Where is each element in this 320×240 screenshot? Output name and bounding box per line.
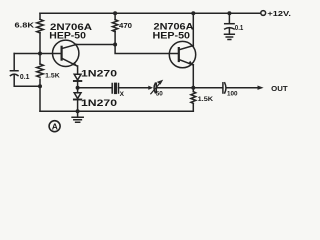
circled letter A bbox=[49, 121, 60, 132]
varcap C2 diagonal arrowhead bbox=[157, 80, 163, 85]
node X junction dot bbox=[76, 86, 80, 90]
wire crystal to varcap bbox=[119, 87, 150, 89]
wire left column mid (base node to 1.5K) bbox=[39, 54, 41, 87]
capacitor C3 0.1 bottom curved plate bbox=[225, 28, 234, 29]
ground symbol main bbox=[72, 111, 83, 122]
transistor Q2 emitter stroke bbox=[179, 59, 194, 65]
crystal Y1 right plate bbox=[118, 84, 120, 94]
wire C4 to OUT with arrowhead bbox=[227, 87, 259, 89]
wire bottom rail bbox=[40, 110, 193, 112]
svg-text:HEP-50: HEP-50 bbox=[49, 31, 86, 42]
node E2 junction dot bbox=[191, 86, 195, 90]
svg-text:0.1: 0.1 bbox=[20, 74, 30, 81]
node rail/R3 junction dot bbox=[113, 11, 117, 15]
wire base row Q1 bbox=[14, 53, 61, 55]
wire node X to D2 bbox=[77, 88, 79, 93]
capacitor C3 0.1 top plate bbox=[225, 23, 234, 25]
transistor Q1 emitter stroke bbox=[62, 58, 78, 66]
wire Q2 collector to rail bbox=[192, 12, 194, 46]
capacitor C4 100 right curved plate bbox=[225, 83, 226, 93]
svg-text:X: X bbox=[120, 91, 125, 98]
transistor Q2 collector stroke bbox=[179, 46, 194, 50]
varcap arrowhead on wire bbox=[148, 86, 153, 90]
svg-text:OUT: OUT bbox=[271, 86, 288, 93]
resistor R1 6.8K zigzag bbox=[37, 19, 44, 33]
resistor R3 470 zigzag bbox=[112, 20, 117, 32]
varcap C2 diagonal arrow bbox=[151, 83, 161, 94]
diode D2 1N270 triangle bbox=[74, 93, 81, 99]
svg-text:6.8K: 6.8K bbox=[15, 23, 35, 30]
wire 470 column bbox=[114, 13, 116, 44]
svg-text:50: 50 bbox=[156, 91, 163, 98]
svg-text:+12V.: +12V. bbox=[267, 9, 291, 18]
svg-text:470: 470 bbox=[119, 23, 132, 30]
wire top rail +12V bbox=[40, 12, 261, 14]
wire D1 to node X bbox=[77, 82, 79, 88]
transistor Q1 emitter arrowhead bbox=[72, 62, 77, 67]
wire node C down and base row Q2 bbox=[115, 45, 179, 54]
wire C3 to ground bbox=[228, 29, 230, 34]
diode D1 1N270 triangle bbox=[74, 74, 81, 80]
diode D2 cathode bar bbox=[74, 99, 81, 101]
wire node X to crystal bbox=[78, 87, 112, 89]
resistor R2 1.5K zigzag bbox=[37, 64, 44, 77]
transistor Q1 circle bbox=[52, 40, 78, 66]
transistor Q1 collector stroke bbox=[62, 44, 77, 48]
wire left column bottom corner to bottom rail bbox=[39, 86, 41, 111]
svg-text:1.5K: 1.5K bbox=[198, 96, 214, 103]
transistor Q2 emitter arrowhead bbox=[188, 61, 193, 66]
node bottom of R2 (junction dot) bbox=[38, 84, 42, 88]
varcap C2 straight plate bbox=[155, 83, 157, 93]
svg-text:1.5K: 1.5K bbox=[45, 72, 60, 79]
svg-text:1N270: 1N270 bbox=[81, 69, 117, 80]
wire rail to capacitor C3 bbox=[228, 13, 230, 23]
node rail/Q2 collector junction dot bbox=[191, 11, 195, 15]
svg-text:100: 100 bbox=[227, 91, 238, 98]
node C junction dot bbox=[113, 43, 117, 47]
svg-text:HEP-50: HEP-50 bbox=[153, 31, 191, 42]
transistor Q2 circle bbox=[169, 41, 195, 67]
transistor Q1 base bar bbox=[60, 47, 62, 60]
wire node E2 to 1.5K bbox=[192, 88, 194, 112]
wire D2 to bottom rail bbox=[77, 100, 79, 111]
wire left column top (rail to base node) bbox=[39, 13, 41, 53]
wire Q1 collector to node C bbox=[76, 44, 115, 46]
wire node E2 to capacitor C4 bbox=[193, 87, 223, 89]
wire varcap to node E2 bbox=[156, 87, 193, 89]
OUT arrowhead bbox=[258, 86, 264, 90]
node base Q1 (junction dot) bbox=[38, 52, 42, 56]
crystal Y1 left plate bbox=[111, 84, 113, 94]
wire Q2 emitter down to node E2 bbox=[192, 65, 194, 88]
diode D1 cathode bar bbox=[74, 80, 81, 82]
node ground junction dot bbox=[76, 109, 80, 113]
resistor R4 1.5K zigzag bbox=[191, 92, 196, 104]
crystal Y1 body bbox=[114, 83, 117, 95]
varcap C2 curved plate bbox=[154, 83, 155, 93]
capacitor C1 0.1 plates bbox=[10, 71, 18, 76]
wire Q1 emitter down to diode D1 bbox=[77, 66, 79, 74]
ground symbol right bbox=[225, 34, 235, 39]
capacitor C1 0.1 left branch wires bbox=[14, 54, 40, 87]
svg-text:A: A bbox=[52, 122, 58, 132]
svg-text:1N270: 1N270 bbox=[81, 98, 117, 109]
terminal +12V open circle bbox=[261, 11, 266, 16]
svg-text:0.1: 0.1 bbox=[235, 25, 244, 32]
transistor Q2 base bar bbox=[178, 48, 180, 61]
node rail/C3 junction dot bbox=[227, 11, 231, 15]
capacitor C4 100 left straight plate bbox=[222, 83, 224, 93]
